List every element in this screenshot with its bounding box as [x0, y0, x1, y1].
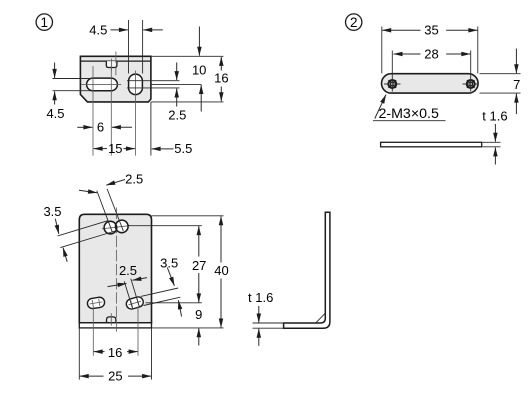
dim 3.5b tangent upper — [141, 288, 178, 296]
dim 3.5b up arrow — [178, 300, 181, 316]
dim 16 arrow right — [127, 351, 138, 353]
front top edge ext — [152, 215, 224, 217]
hole lower arc-center line — [127, 87, 180, 89]
front part centerline — [115, 208, 117, 335]
svg-text:35: 35 — [424, 23, 438, 38]
svg-text:3.5: 3.5 — [43, 204, 61, 219]
svg-text:6: 6 — [97, 120, 104, 135]
bar side bottom ext — [483, 146, 501, 148]
svg-text:25: 25 — [108, 368, 122, 383]
dim 3.5b tangent lower — [144, 297, 181, 305]
bracket top view bent-flange inner edge line — [81, 60, 150, 62]
front notch centerline — [110, 313, 112, 325]
hole vertical centerline — [135, 71, 137, 156]
dim 3.5 tangent lower — [60, 231, 116, 248]
bottom right slanted slot — [125, 296, 144, 311]
slot (horizontal obround hole) — [87, 78, 118, 91]
svg-text:2: 2 — [350, 15, 358, 30]
M3 tapped hole left — [384, 80, 400, 88]
dim t1.6-2 up arrow — [494, 147, 496, 164]
slot top ext line — [53, 78, 93, 80]
svg-text:3.5: 3.5 — [160, 256, 178, 271]
dim 35 arrow right — [446, 29, 477, 31]
dim 2.5 ext line through right center — [107, 189, 123, 231]
svg-text:t 1.6: t 1.6 — [482, 108, 507, 123]
top hole fills — [104, 221, 117, 234]
slot horizontal centerline — [81, 83, 121, 85]
front bottom edge ext — [152, 327, 224, 329]
bar left end ext line — [381, 27, 383, 74]
svg-text:t 1.6: t 1.6 — [248, 290, 273, 305]
dim 4.5 top arrow right — [143, 29, 163, 31]
dim 3.5 leader arrow — [55, 219, 59, 234]
dim 3.5 lower arrow — [63, 248, 67, 262]
top hole left circle — [104, 221, 117, 234]
dim 2.5 top arrow left — [79, 190, 97, 193]
dim 6 arrow right — [112, 126, 132, 128]
dim 2.5b ext line 2 — [131, 279, 140, 308]
dim 7 up arrow — [515, 94, 517, 114]
svg-text:2.5: 2.5 — [168, 107, 186, 122]
side view bottom ext line — [253, 327, 284, 329]
left hole centerline — [92, 307, 94, 356]
svg-text:27: 27 — [192, 258, 206, 273]
right edge ext down — [150, 102, 152, 156]
dim 2.5 lower arrow — [176, 89, 178, 107]
dim 16 arrow left — [94, 351, 105, 353]
dim 27 lower arrow — [198, 273, 200, 302]
hole left centerline — [391, 51, 393, 92]
svg-text:2.5: 2.5 — [119, 263, 137, 278]
dim 28 arrow left — [394, 53, 421, 55]
dim 9 arrow — [198, 328, 200, 345]
bar top ext line — [480, 73, 521, 75]
svg-text:4.5: 4.5 — [89, 22, 107, 37]
figure label (2) circled numeral — [346, 14, 362, 30]
bracket front view bottom flange band — [79, 323, 151, 328]
dim 2.5b ext line 1 — [124, 281, 133, 309]
slot bottom ext line — [53, 90, 93, 92]
top hole axis centerline — [102, 226, 130, 229]
vertical obround hole — [129, 74, 143, 95]
svg-text:40: 40 — [214, 263, 228, 278]
dim 2.5 ext line through left center — [97, 191, 113, 233]
dim 15 arrow right — [124, 148, 135, 150]
svg-text:1: 1 — [41, 15, 49, 30]
dim t1.6-2 down arrow — [494, 124, 496, 142]
svg-text:2.5: 2.5 — [125, 171, 143, 186]
dim 10 upper arrow — [198, 27, 200, 56]
hole right centerline — [470, 51, 472, 92]
dim 16 line upper — [220, 57, 222, 71]
slot right arc centerline — [110, 66, 112, 156]
hole upper arc-center line — [127, 80, 180, 82]
notch centerline — [111, 59, 113, 71]
dim 15 arrow left — [94, 148, 107, 150]
dim 16 line lower — [220, 87, 222, 102]
bottom edge extension right — [151, 101, 224, 103]
top hole right circle — [116, 220, 129, 233]
bracket top view body outline — [80, 56, 150, 102]
dim 2.5 upper arrow — [176, 63, 178, 81]
dim 2.5 top arrow right — [106, 180, 125, 186]
dim 6 arrow left — [77, 126, 92, 128]
bracket front view face — [79, 214, 151, 322]
svg-text:10: 10 — [192, 63, 206, 78]
bar side view (edge) — [381, 142, 482, 147]
dim 3.5b leader arrow — [167, 268, 174, 286]
svg-text:2-M3×0.5: 2-M3×0.5 — [379, 106, 439, 122]
label 2-M3x0.5 underline — [373, 120, 446, 122]
svg-text:15: 15 — [108, 141, 122, 156]
bend tangent line — [316, 313, 326, 323]
svg-text:16: 16 — [214, 70, 228, 85]
figure label (1) circled numeral — [36, 14, 52, 30]
left edge ext down — [78, 328, 80, 380]
dim t1.6 up arrow — [258, 329, 260, 346]
dim 10 lower arrow — [200, 85, 202, 112]
svg-text:16: 16 — [108, 345, 122, 360]
bar right end ext line — [477, 27, 479, 74]
dim 27 upper arrow — [198, 226, 200, 256]
dim 2.5b arrow left — [108, 284, 127, 287]
svg-text:28: 28 — [424, 46, 438, 61]
svg-text:9: 9 — [195, 307, 202, 322]
dim 7 down arrow — [515, 49, 517, 74]
dim 25 arrow right — [128, 375, 151, 377]
slot left arc centerline — [92, 66, 94, 156]
dim 4.5 left lower arrow — [54, 91, 56, 104]
dim 3.5 tangent upper — [58, 221, 108, 236]
svg-text:5.5: 5.5 — [174, 141, 192, 156]
ext line hole right edge — [142, 20, 144, 74]
dim 4.5 top arrow left — [111, 29, 128, 31]
label 2-M3x0.5 leader arrow — [375, 95, 386, 119]
M3 tapped hole right — [463, 80, 479, 88]
dim 28 arrow right — [446, 53, 470, 55]
bracket top view tab notch — [106, 61, 117, 67]
svg-text:7: 7 — [513, 77, 520, 92]
top hole center ext — [129, 225, 202, 227]
right hole centerline — [137, 307, 139, 356]
dim 40 upper arrow — [220, 216, 222, 262]
flat bar body — [382, 74, 479, 93]
dim 25 arrow left — [80, 375, 104, 377]
bar side top ext — [483, 141, 501, 143]
L-bracket side view profile — [284, 212, 330, 328]
dim 5.5 arrow — [152, 148, 174, 150]
top view part centerline — [115, 52, 117, 76]
dim 35 arrow left — [382, 29, 420, 31]
bottom hole center ext — [146, 302, 202, 304]
bar bottom ext line — [480, 92, 521, 94]
dim 2.5b arrow right — [132, 278, 147, 281]
dim t1.6 down arrow — [258, 306, 260, 323]
ext line hole left edge — [128, 20, 130, 74]
svg-text:4.5: 4.5 — [46, 106, 64, 121]
dim 4.5 left upper arrow — [54, 63, 56, 78]
bottom left slanted slot — [87, 297, 106, 310]
centerline extension right — [151, 83, 202, 85]
top edge extension right — [151, 55, 224, 57]
front view tab notch — [107, 317, 116, 323]
right edge ext down — [151, 328, 153, 380]
dim 40 lower arrow — [220, 279, 222, 328]
side view top ext line — [253, 322, 284, 324]
